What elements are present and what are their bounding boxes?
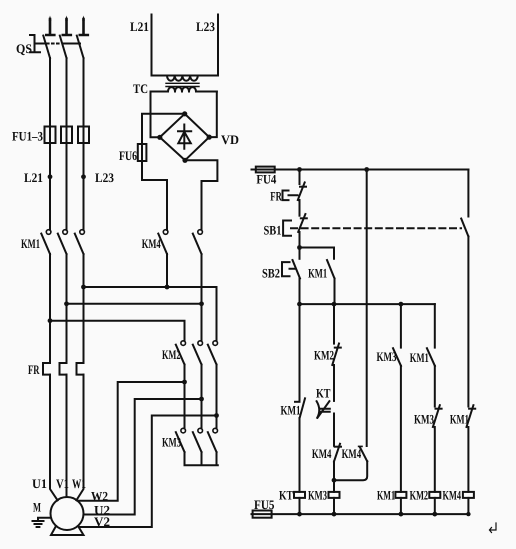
disconnect switch QS pole 1 blade: [43, 36, 50, 58]
svg-text:KM2: KM2: [162, 347, 181, 362]
node L23 junction dot: [81, 174, 86, 179]
junction dot rail KM1: [399, 512, 404, 517]
QS linkage solid segment 2: [64, 43, 81, 45]
fuse FU3: [78, 127, 89, 144]
svg-text:SB2: SB2: [262, 266, 280, 281]
wire KT contact to KM4 left: [333, 414, 335, 446]
svg-text:KM4: KM4: [342, 446, 362, 461]
wire line A y=287 to KM2 pole3: [84, 287, 217, 341]
node C dot on pole1: [48, 318, 53, 323]
transformer TC primary winding: [152, 76, 219, 81]
wire SB2 to bus: [299, 279, 301, 305]
svg-text:KM1: KM1: [377, 488, 395, 503]
supply terminal L1 arrow: [46, 16, 54, 36]
wire branch4 to KM1 coil: [400, 366, 402, 492]
SB1 second NO contact: [461, 219, 468, 237]
svg-text:KM1: KM1: [308, 266, 327, 281]
wire KM4 left to dot: [333, 462, 335, 492]
fuse FU1: [45, 127, 56, 144]
contactor KM2 contact pole2: [193, 341, 203, 365]
KM1 NO contact branch5: [427, 348, 435, 366]
wire branch6 rail corner to SB1 second contact: [467, 170, 469, 217]
svg-text:KT: KT: [316, 385, 331, 400]
wire pole1 FR to motor U1: [50, 375, 58, 501]
bridge corner dot bottom: [182, 158, 187, 163]
thermal overload FR heater pole3: [77, 363, 84, 375]
wire KM1 coil to rail: [400, 498, 402, 514]
wire KM4 right pole through line B to KM2 pole2: [201, 254, 203, 341]
wire KM2 coil to rail: [434, 498, 436, 514]
control bottom rail with FU5: [252, 513, 469, 515]
junction dot branch3 top: [364, 167, 369, 172]
svg-text:KM1: KM1: [410, 350, 429, 365]
fuse FU5: [253, 511, 272, 518]
wire KM1 self-hold to bus: [334, 279, 336, 305]
svg-text:KM3: KM3: [377, 349, 397, 364]
wire KT coil to rail: [299, 498, 301, 514]
svg-text:FU5: FU5: [254, 497, 275, 512]
wire branch5 bus corner to KM1 NO: [434, 304, 436, 348]
wire pole3 KM1 to node A: [83, 254, 85, 363]
svg-text:V1: V1: [56, 476, 69, 491]
junction dot W2 on KM2 pole1 line: [182, 380, 187, 385]
wire secondary left to bridge left corner: [151, 92, 160, 138]
contactor KM1 main contact pole3: [75, 230, 85, 254]
thermal overload FR heater pole1: [43, 363, 50, 375]
junction dot KM4 left pole on line A: [165, 285, 170, 290]
transformer TC secondary winding: [151, 87, 217, 91]
svg-text:TC: TC: [133, 81, 148, 96]
disconnect switch QS pole 3 blade: [77, 36, 84, 58]
wire secondary right to bridge right corner: [209, 92, 217, 138]
motor stand: [51, 526, 84, 535]
node L21 junction dot: [48, 174, 53, 179]
svg-text:KM3: KM3: [162, 435, 181, 450]
node A dot on pole3: [81, 285, 86, 290]
bridge rectifier VD diamond: [160, 114, 209, 161]
contactor KM4 main contact left: [158, 230, 168, 254]
coil KM3: [329, 492, 340, 498]
FR NC contact control: [298, 182, 306, 200]
wire pole2 QS to FU2: [66, 58, 68, 143]
contactor KM3 contact pole2: [193, 428, 203, 452]
svg-text:U1: U1: [32, 476, 47, 491]
wire V2 motor to KM2 pole3: [79, 416, 217, 528]
junction dot KM4 parallel: [332, 478, 337, 483]
junction dot rail KM4 corner: [466, 512, 470, 516]
KM3 star shorting bar: [185, 452, 218, 465]
wire KM4 right rounded corner to dot: [334, 461, 367, 480]
junction dot self-hold top: [297, 245, 302, 250]
wire pole2 FU2 to KM1: [66, 143, 68, 230]
return mark artifact: [490, 523, 497, 533]
wire branch4 bus to KM3 NO: [400, 304, 402, 348]
KM1 NC contact branch6: [467, 405, 476, 427]
wire branch5 to KM3 NC: [434, 366, 436, 407]
motor M circle: [51, 497, 84, 530]
svg-text:KM4: KM4: [443, 488, 462, 503]
wire branch1 rail to FR: [299, 170, 301, 185]
junction dot rail KM3: [332, 512, 337, 517]
control top rail with FU4: [252, 169, 469, 171]
svg-text:L21: L21: [24, 170, 43, 185]
junction dot KM4 right pole on line B: [199, 301, 204, 306]
wire branch1 to KT coil: [299, 418, 301, 492]
transformer TC primary lead L21: [151, 15, 153, 76]
svg-text:FR: FR: [270, 189, 282, 204]
svg-text:QS: QS: [16, 41, 32, 56]
junction dot bus branch4: [399, 302, 404, 307]
wire self-hold branch top: [300, 248, 335, 259]
diode symbol inside bridge: [178, 125, 191, 149]
junction dot branch1 top: [297, 167, 302, 172]
svg-text:FU6: FU6: [119, 148, 137, 163]
SB2 button bracket: [282, 262, 295, 276]
wire KM2 pole3 down: [216, 365, 218, 429]
wire KM4 coil to rail: [467, 498, 469, 514]
svg-text:VD: VD: [221, 132, 239, 147]
svg-text:FU1–3: FU1–3: [12, 129, 43, 144]
wire U2 motor to KM2 pole2: [84, 399, 202, 515]
wire FU6 to KM4 left pole: [142, 161, 167, 230]
svg-text:KT: KT: [279, 488, 293, 503]
wire pole3 QS to FU3: [83, 58, 85, 143]
junction dot rail KM2: [432, 512, 437, 517]
KM3 NO contact branch4: [393, 348, 401, 366]
wire bridge top corner to FU6: [142, 114, 185, 161]
bridge corner dot top: [182, 111, 187, 116]
svg-text:L21: L21: [130, 19, 149, 34]
svg-text:KM1: KM1: [281, 402, 301, 417]
wire branch3 rail to KM4 right: [366, 170, 368, 447]
contactor KM1 main contact pole2: [58, 230, 68, 254]
wire branch1 bus to KM1 NO: [299, 304, 301, 400]
wire pole2 KM1 to node B: [66, 254, 68, 363]
contactor KM3 contact pole3: [208, 428, 218, 452]
svg-text:KM1: KM1: [450, 412, 469, 427]
wire FR to SB1: [299, 200, 301, 216]
disconnect switch QS pole 2 blade: [60, 36, 67, 58]
junction dot U2 on KM2 pole2 line: [199, 397, 204, 402]
wire bridge bottom corner to KM4 right pole: [185, 160, 217, 229]
bridge corner dot left: [157, 135, 162, 140]
svg-text:L23: L23: [95, 170, 114, 185]
wire KM2 pole2 down: [201, 365, 203, 429]
contactor KM3 contact pole1: [176, 428, 186, 452]
wire line B y=303.8: [67, 303, 202, 305]
fuse FU2: [61, 127, 72, 144]
thermal overload FR heater pole2: [60, 363, 67, 375]
wire branch5 to KM2 coil: [434, 427, 436, 492]
contactor KM2 contact pole3: [208, 341, 218, 365]
contactor KM2 contact pole1: [176, 341, 186, 365]
wire KM4 left pole to line A: [166, 254, 168, 287]
KM3 NC contact branch5: [433, 405, 442, 427]
svg-text:KM1: KM1: [21, 236, 40, 251]
wire KM3 coil to rail: [333, 498, 335, 514]
KM2 NC contact: [332, 344, 341, 366]
wire pole1 KM1 to node C: [49, 254, 51, 363]
wire branch2 bus to KM2 NC: [333, 304, 335, 344]
junction dot V2 on KM2 pole3 line: [214, 413, 219, 418]
svg-text:FR: FR: [28, 362, 40, 377]
KM1 self-hold NO contact: [327, 260, 335, 279]
svg-text:W1: W1: [72, 476, 86, 491]
wire SB1 to node: [299, 232, 301, 259]
node B dot on pole2: [64, 301, 69, 306]
svg-text:M: M: [33, 500, 41, 515]
contactor KM4 main contact right: [193, 230, 203, 254]
supply terminal L3 arrow: [80, 16, 88, 36]
KM4 NO contact right: [359, 446, 368, 461]
svg-text:KM4: KM4: [142, 236, 161, 251]
transformer TC primary lead L23: [217, 15, 219, 76]
svg-text:KM2: KM2: [410, 488, 429, 503]
start button SB2 NO contact: [293, 260, 301, 279]
QS linkage dotted segment: [47, 43, 61, 45]
SB1 button bracket: [283, 221, 291, 236]
wire KM2 pole1 down: [184, 365, 186, 429]
stop button SB1 NC contact: [298, 214, 307, 232]
svg-text:L23: L23: [196, 19, 215, 34]
wire branch6 to KM4 coil: [467, 427, 469, 492]
KM4 NO contact left: [334, 444, 341, 462]
wire pole1 QS to FU1: [49, 58, 51, 143]
fuse FU6: [138, 144, 147, 161]
transformer TC core: [166, 83, 199, 86]
svg-text:KM4: KM4: [312, 446, 332, 461]
QS linkage solid segment: [35, 43, 45, 45]
KT delayed contact: [317, 401, 330, 418]
svg-text:KM3: KM3: [308, 488, 327, 503]
wire pole3 FR to motor W1: [76, 375, 83, 501]
bridge corner dot right: [207, 135, 212, 140]
coil KM1: [395, 492, 406, 498]
QS handle bracket: [30, 35, 40, 52]
supply terminal L2 arrow: [63, 16, 71, 36]
SB1 linkage dashed: [291, 227, 461, 229]
svg-text:SB1: SB1: [264, 222, 282, 237]
fuse FU4: [256, 167, 275, 173]
svg-text:FU4: FU4: [256, 171, 276, 186]
junction dot bus branch2: [332, 302, 337, 307]
wire KM2 NC to KT contact: [333, 365, 335, 401]
ground symbol: [33, 518, 51, 527]
wire line C y=320.7 to KM2 pole1: [50, 321, 185, 341]
svg-text:KM2: KM2: [314, 348, 334, 363]
svg-text:KM3: KM3: [414, 412, 434, 427]
wire pole1 FU1 to KM1: [49, 143, 51, 230]
coil KT: [294, 492, 305, 498]
coil KM2: [429, 492, 440, 498]
contactor KM1 main contact pole1: [41, 230, 51, 254]
control bus y=304: [300, 303, 435, 305]
wire branch6 to KM1 NC: [467, 237, 469, 407]
coil KM4: [463, 492, 474, 498]
wire W2 motor to KM2 pole1: [79, 382, 185, 501]
junction dot bus branch1: [297, 302, 302, 307]
FR trip bracket: [283, 191, 298, 201]
wire pole3 FU3 to KM1: [83, 143, 85, 230]
junction dot rail KT: [297, 512, 302, 517]
svg-text:W2: W2: [91, 489, 108, 504]
KM1 NO contact branch1: [295, 398, 305, 418]
svg-text:V2: V2: [94, 514, 110, 529]
wire pole2 FR to motor V1: [66, 375, 68, 497]
